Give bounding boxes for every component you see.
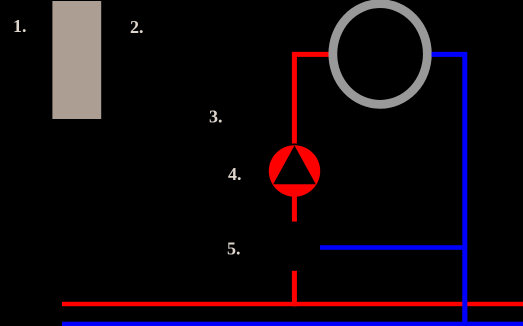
svg-text:1.: 1. (13, 16, 27, 36)
svg-text:3.: 3. (209, 107, 223, 127)
supply pipe lower segment (red) into bottom main (292, 271, 297, 307)
boiler (gray circle) item 3 (333, 4, 428, 105)
pump rotor triangle (black) (273, 146, 316, 185)
return down-comer over supply main (blue vertical overlays red) (462, 300, 467, 326)
return branch (blue horizontal from valve to down-comer) (320, 245, 467, 250)
svg-text:5.: 5. (227, 239, 241, 259)
supply pipe top (red): corner from pump riser to boiler (294, 54, 328, 143)
bottom supply main (red horizontal) (62, 302, 523, 306)
pump (item 4): red circle (269, 145, 320, 196)
supply pipe below pump (red) (292, 196, 297, 221)
svg-text:4.: 4. (228, 164, 242, 184)
mixing valve (item 5, black - invisible on background) (281, 232, 308, 260)
chimney (tan rectangle) item 2 (52, 1, 101, 119)
bottom return main (blue horizontal) (62, 322, 523, 326)
svg-text:2.: 2. (130, 17, 144, 37)
return pipe top (blue): from boiler right to down-comer (432, 54, 465, 326)
